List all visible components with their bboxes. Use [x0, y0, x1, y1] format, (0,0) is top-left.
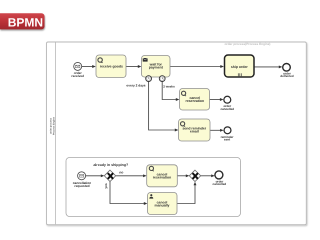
svg-text:ship order: ship order [231, 65, 248, 69]
svg-text:BPMN: BPMN [8, 15, 43, 29]
svg-text:cancelled: cancelled [213, 182, 227, 186]
svg-text:reservation: reservation [186, 99, 205, 103]
svg-text:order process(Process Engine): order process(Process Engine) [225, 42, 271, 46]
svg-text:reservation: reservation [153, 176, 172, 180]
svg-text:payment: payment [149, 66, 164, 70]
svg-text:received: received [71, 74, 84, 78]
svg-text:delivered: delivered [280, 74, 293, 78]
svg-text:yes: yes [104, 183, 108, 189]
svg-text:requested: requested [74, 184, 89, 188]
svg-text:every 2 days: every 2 days [126, 84, 145, 88]
svg-text:cancelled: cancelled [220, 107, 234, 111]
svg-text:already in shipping?: already in shipping? [93, 163, 128, 167]
svg-text:2 weeks: 2 weeks [163, 84, 175, 88]
svg-text:no: no [119, 171, 123, 175]
svg-text:Process Engine: Process Engine [53, 116, 56, 135]
svg-text:email: email [190, 130, 199, 134]
svg-text:manually: manually [155, 204, 170, 208]
svg-text:receive goods: receive goods [100, 64, 123, 68]
svg-text:sent: sent [224, 138, 230, 142]
